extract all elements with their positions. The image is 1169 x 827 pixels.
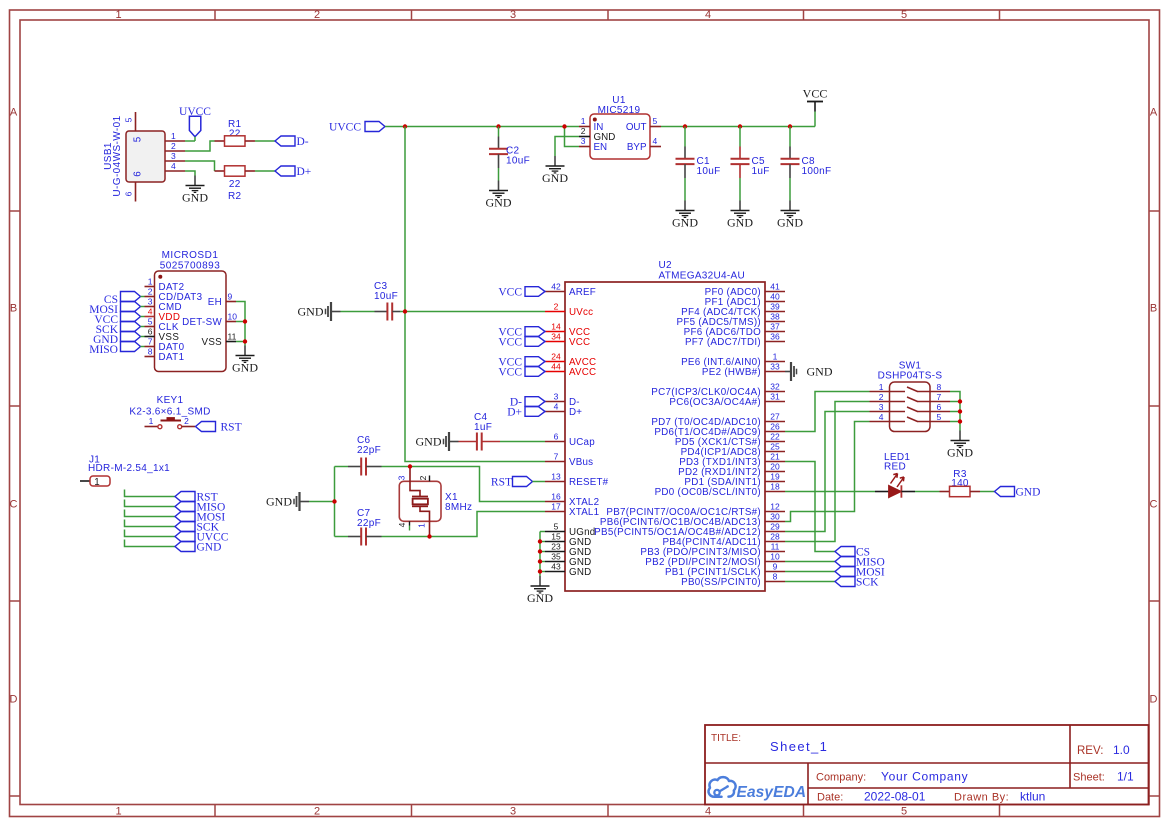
svg-text:8: 8 <box>773 572 778 582</box>
svg-text:GND: GND <box>416 435 442 449</box>
wire USB1 pin4 to ground <box>185 171 195 176</box>
junction UVCC/C3 branch <box>403 124 407 128</box>
port RST at RESET# <box>491 476 545 488</box>
svg-text:100nF: 100nF <box>802 166 832 177</box>
svg-text:1: 1 <box>171 131 176 141</box>
ground at C1 <box>672 201 698 230</box>
port MISO stub <box>125 500 226 514</box>
svg-text:RST: RST <box>491 476 512 488</box>
wire U1 GND pin to ground <box>555 137 579 157</box>
svg-text:GND: GND <box>197 541 222 553</box>
port MOSI <box>835 566 885 578</box>
svg-text:7: 7 <box>148 337 153 347</box>
svg-text:1: 1 <box>417 523 427 528</box>
svg-text:2: 2 <box>581 126 586 136</box>
net flag VCC at AREF <box>498 286 545 298</box>
svg-text:16: 16 <box>551 492 561 502</box>
junction GND pin43 <box>538 569 542 573</box>
regulator U1 MIC5219 <box>579 95 661 159</box>
port GND at MICROSD1 <box>93 332 144 347</box>
svg-text:4: 4 <box>653 136 658 146</box>
svg-text:PE2 (HWB#): PE2 (HWB#) <box>702 367 761 378</box>
svg-text:EN: EN <box>594 142 608 153</box>
wire SW1 pin2 to PB4 <box>785 402 870 542</box>
junction OUT/C8 <box>788 124 792 128</box>
svg-text:GND: GND <box>298 305 324 319</box>
svg-text:3: 3 <box>581 136 586 146</box>
svg-text:GND: GND <box>1016 486 1041 498</box>
LED LED1 RED <box>875 452 915 498</box>
svg-text:4: 4 <box>554 402 559 412</box>
svg-text:HDR-M-2.54_1x1: HDR-M-2.54_1x1 <box>88 463 170 474</box>
svg-text:10: 10 <box>228 312 238 322</box>
port CS at SW1 net <box>835 546 870 558</box>
svg-text:9: 9 <box>228 292 233 302</box>
svg-text:5025700893: 5025700893 <box>160 261 221 272</box>
svg-text:1.0: 1.0 <box>1113 743 1130 757</box>
svg-text:35: 35 <box>551 552 561 562</box>
wire SW1 right side to ground <box>950 392 960 431</box>
svg-text:D-: D- <box>297 136 309 148</box>
svg-text:MICROSD1: MICROSD1 <box>162 250 219 261</box>
capacitor C5 1uF <box>731 127 770 201</box>
svg-text:ATMEGA32U4-AU: ATMEGA32U4-AU <box>659 271 746 282</box>
svg-text:PD0 (OC0B/SCL/INT0): PD0 (OC0B/SCL/INT0) <box>655 487 761 498</box>
svg-text:Sheet_1: Sheet_1 <box>770 739 828 754</box>
port D- <box>275 136 309 148</box>
svg-text:1: 1 <box>115 806 121 818</box>
title block <box>705 725 1149 805</box>
capacitor C6 22pF <box>335 435 411 476</box>
svg-text:1: 1 <box>115 9 121 21</box>
connector USB1 U-G-04WS-W-01 <box>103 112 185 202</box>
svg-text:21: 21 <box>770 452 780 462</box>
svg-text:10uF: 10uF <box>697 166 721 177</box>
svg-text:3: 3 <box>879 402 884 412</box>
svg-text:22: 22 <box>229 179 241 190</box>
svg-text:PB0(SS/PCINT0): PB0(SS/PCINT0) <box>681 577 761 588</box>
wire PD3 to CS port <box>785 462 835 552</box>
svg-text:GND: GND <box>807 365 833 379</box>
svg-text:6: 6 <box>148 327 153 337</box>
svg-text:GND: GND <box>777 216 803 230</box>
ground at SW1 <box>947 431 973 460</box>
wire MICROSD1 EH/DET-SW/VSS to ground <box>236 302 245 346</box>
svg-text:39: 39 <box>770 302 780 312</box>
svg-text:B: B <box>10 303 17 315</box>
port SCK stub <box>125 520 220 534</box>
svg-text:4: 4 <box>397 522 407 527</box>
ground at C8 <box>777 201 803 230</box>
svg-text:5: 5 <box>148 317 153 327</box>
svg-text:42: 42 <box>551 282 561 292</box>
junction SW1 pin7 <box>958 399 962 403</box>
svg-text:1/1: 1/1 <box>1117 770 1134 784</box>
svg-text:TITLE:: TITLE: <box>711 733 741 744</box>
svg-text:13: 13 <box>551 472 561 482</box>
svg-text:20: 20 <box>770 462 780 472</box>
ground at C3 <box>298 302 341 321</box>
junction C3/UVcc branch <box>403 309 407 313</box>
wire crystal left rail <box>334 467 336 537</box>
svg-text:5: 5 <box>133 136 144 142</box>
net flag D- at pin3 <box>510 396 545 408</box>
svg-text:Drawn By:: Drawn By: <box>954 792 1009 804</box>
svg-text:MISO: MISO <box>89 344 118 356</box>
svg-text:D+: D+ <box>507 406 522 418</box>
crystal X1 8MHz <box>397 467 473 537</box>
port UVCC stub <box>125 530 229 544</box>
MICROSD1 right pins <box>182 292 237 349</box>
svg-text:3: 3 <box>397 475 407 480</box>
svg-text:SCK: SCK <box>856 576 879 588</box>
svg-text:3: 3 <box>510 806 516 818</box>
wire R1 to port D- <box>255 140 275 142</box>
svg-text:Your Company: Your Company <box>881 770 968 784</box>
svg-text:3: 3 <box>148 297 153 307</box>
svg-text:30: 30 <box>770 512 780 522</box>
svg-text:12: 12 <box>770 502 780 512</box>
svg-text:37: 37 <box>770 322 780 332</box>
svg-text:1: 1 <box>581 116 586 126</box>
svg-text:R2: R2 <box>228 191 242 202</box>
svg-text:24: 24 <box>551 352 561 362</box>
wire PD0 to LED1 <box>785 491 875 493</box>
svg-text:VSS: VSS <box>201 337 222 348</box>
svg-text:RED: RED <box>884 462 906 473</box>
svg-text:2: 2 <box>171 141 176 151</box>
svg-text:D: D <box>1150 694 1158 706</box>
push button KEY1 K2-3.6x6.1_SMD <box>129 395 210 429</box>
svg-text:6: 6 <box>124 191 134 196</box>
svg-text:GND: GND <box>947 446 973 460</box>
svg-text:4: 4 <box>148 307 153 317</box>
junction SW1 pin6 <box>958 409 962 413</box>
port SCK <box>835 576 879 588</box>
wire SW1 pin4 to PB6 <box>785 422 870 522</box>
ground at U2 <box>527 576 553 605</box>
svg-text:C: C <box>10 499 18 511</box>
svg-text:38: 38 <box>770 312 780 322</box>
svg-text:40: 40 <box>770 292 780 302</box>
U2 left pins <box>545 282 609 578</box>
svg-text:Date:: Date: <box>817 792 843 804</box>
svg-text:DET-SW: DET-SW <box>182 317 222 328</box>
net flag VCC at pin14 <box>498 326 545 338</box>
svg-text:VBus: VBus <box>569 457 593 468</box>
svg-text:6: 6 <box>554 432 559 442</box>
U2 right pins <box>594 282 785 588</box>
ground at C2 <box>486 181 512 210</box>
svg-text:Company:: Company: <box>816 772 866 784</box>
svg-text:2022-08-01: 2022-08-01 <box>864 790 926 804</box>
svg-text:XTAL1: XTAL1 <box>569 507 599 518</box>
port GND at R3 <box>995 486 1041 498</box>
svg-text:U-G-04WS-W-01: U-G-04WS-W-01 <box>112 115 123 196</box>
svg-text:1uF: 1uF <box>474 422 492 433</box>
svg-text:23: 23 <box>551 542 561 552</box>
svg-text:VCC: VCC <box>803 87 828 101</box>
svg-text:8: 8 <box>148 347 153 357</box>
svg-text:VCC: VCC <box>498 366 522 378</box>
junction OUT/C1 <box>683 124 687 128</box>
svg-text:5: 5 <box>653 116 658 126</box>
wire EN branch <box>565 127 580 147</box>
ground at USB1 <box>182 176 208 205</box>
svg-text:1uF: 1uF <box>752 166 770 177</box>
svg-text:GND: GND <box>486 196 512 210</box>
svg-text:32: 32 <box>770 382 780 392</box>
svg-text:D+: D+ <box>297 166 312 178</box>
svg-text:A: A <box>10 107 18 119</box>
junction GND pin35 <box>538 559 542 563</box>
wire U2 ground pins <box>540 532 545 577</box>
svg-text:25: 25 <box>770 442 780 452</box>
svg-text:44: 44 <box>551 362 561 372</box>
svg-text:UVCC: UVCC <box>329 121 361 133</box>
svg-text:10uF: 10uF <box>374 291 398 302</box>
wire LED1 to R3 <box>915 491 940 493</box>
svg-text:27: 27 <box>770 412 780 422</box>
svg-text:15: 15 <box>551 532 561 542</box>
svg-text:11: 11 <box>228 332 237 342</box>
wire U1 OUT to VCC <box>661 126 815 128</box>
wire PB0 to SCK port <box>785 581 835 583</box>
svg-text:2: 2 <box>314 9 320 21</box>
svg-text:26: 26 <box>770 422 780 432</box>
svg-text:3: 3 <box>171 151 176 161</box>
svg-text:AREF: AREF <box>569 287 596 298</box>
svg-text:4: 4 <box>879 412 884 422</box>
svg-text:GND: GND <box>527 591 553 605</box>
svg-text:1: 1 <box>148 277 153 287</box>
wire SW1 pin3 to PB5 <box>785 412 870 532</box>
svg-text:BYP: BYP <box>627 142 647 153</box>
svg-text:U2: U2 <box>659 260 673 271</box>
junction VSS <box>243 339 247 343</box>
junction UVCC/C2 <box>496 124 500 128</box>
svg-text:5: 5 <box>901 806 907 818</box>
svg-text:RST: RST <box>221 421 242 433</box>
svg-text:8MHz: 8MHz <box>445 502 472 513</box>
svg-text:22pF: 22pF <box>357 445 381 456</box>
svg-text:Sheet:: Sheet: <box>1073 772 1105 784</box>
svg-text:29: 29 <box>770 522 780 532</box>
svg-text:4: 4 <box>705 9 711 21</box>
svg-text:ktlun: ktlun <box>1020 790 1045 804</box>
capacitor C2 10uF <box>489 127 530 181</box>
ground at PE2 <box>785 362 833 381</box>
svg-text:10uF: 10uF <box>506 156 530 167</box>
net flag D+ at pin4 <box>507 406 545 418</box>
junction X1 top <box>408 464 412 468</box>
svg-text:3: 3 <box>510 9 516 21</box>
svg-text:UCap: UCap <box>569 437 595 448</box>
svg-text:GND: GND <box>569 567 591 578</box>
svg-text:GND: GND <box>182 191 208 205</box>
svg-text:PF7 (ADC7/TDI): PF7 (ADC7/TDI) <box>685 337 761 348</box>
svg-text:2: 2 <box>418 475 428 480</box>
svg-text:5: 5 <box>901 9 907 21</box>
wire XTAL2 net <box>410 467 545 502</box>
capacitor C4 1uF <box>459 412 546 451</box>
capacitor C3 10uF <box>341 281 406 321</box>
svg-text:VCC: VCC <box>498 336 522 348</box>
svg-text:7: 7 <box>554 452 559 462</box>
ground at crystal rail <box>266 492 335 511</box>
svg-text:GND: GND <box>266 495 292 509</box>
svg-text:A: A <box>1150 107 1158 119</box>
connector MICROSD1 5025700893 <box>155 250 227 372</box>
svg-text:4: 4 <box>171 161 176 171</box>
svg-text:C: C <box>1150 499 1158 511</box>
svg-text:2: 2 <box>314 806 320 818</box>
wire UVCC vertical to VBus <box>405 127 545 462</box>
net flag VCC at pin24 <box>498 356 545 368</box>
svg-text:VCC: VCC <box>569 337 590 348</box>
svg-text:3: 3 <box>554 392 559 402</box>
svg-text:19: 19 <box>770 472 780 482</box>
svg-text:2: 2 <box>554 302 559 312</box>
svg-text:34: 34 <box>551 332 561 342</box>
port SCK at MICROSD1 <box>96 322 145 337</box>
port MISO at MICROSD1 <box>89 342 144 357</box>
port CS at MICROSD1 <box>104 292 145 307</box>
svg-text:B: B <box>1150 303 1157 315</box>
svg-text:31: 31 <box>770 392 780 402</box>
port MOSI stub <box>125 510 226 524</box>
svg-text:KEY1: KEY1 <box>157 395 184 406</box>
svg-text:28: 28 <box>770 532 780 542</box>
svg-text:2: 2 <box>879 392 884 402</box>
svg-text:22pF: 22pF <box>357 518 381 529</box>
resistor R1 22 <box>215 119 256 146</box>
dip switch SW1 DSHP04TS-S <box>870 361 951 432</box>
svg-text:DSHP04TS-S: DSHP04TS-S <box>878 371 943 382</box>
net flag UVCC at USB1 pin1 <box>179 106 211 141</box>
port GND stub <box>125 540 222 554</box>
wire C3 to UVcc pin <box>405 311 545 313</box>
svg-text:GND: GND <box>232 361 258 375</box>
wire R2 to port D+ <box>255 170 275 172</box>
svg-text:PC6(OC3A/OC4A#): PC6(OC3A/OC4A#) <box>669 397 761 408</box>
junction DET-SW <box>243 319 247 323</box>
svg-text:EH: EH <box>208 297 222 308</box>
svg-text:GND: GND <box>542 171 568 185</box>
port RST at KEY1 <box>196 421 242 433</box>
svg-text:VCC: VCC <box>498 286 522 298</box>
wire PB2 to MISO port <box>785 561 835 563</box>
port MOSI at MICROSD1 <box>89 302 144 317</box>
svg-text:6: 6 <box>133 171 144 177</box>
capacitor C7 22pF <box>335 508 430 546</box>
port D+ <box>275 166 311 178</box>
junction SW1 pin5 <box>958 419 962 423</box>
svg-text:1: 1 <box>149 416 154 426</box>
svg-text:D+: D+ <box>569 407 582 418</box>
svg-text:1: 1 <box>879 382 884 392</box>
capacitor C8 100nF <box>781 127 832 201</box>
svg-text:36: 36 <box>770 332 780 342</box>
svg-text:D: D <box>10 694 18 706</box>
EasyEDA logo <box>709 777 807 801</box>
svg-text:4: 4 <box>705 806 711 818</box>
svg-text:1: 1 <box>773 352 778 362</box>
capacitor C1 10uF <box>676 127 721 201</box>
svg-text:EasyEDA: EasyEDA <box>737 784 807 801</box>
port VCC at MICROSD1 <box>94 312 144 327</box>
svg-text:10: 10 <box>770 552 780 562</box>
svg-text:18: 18 <box>770 482 780 492</box>
junction crystal rail <box>332 499 336 503</box>
wire R3 to GND port <box>980 491 995 493</box>
port RST stub <box>125 490 218 504</box>
wire SW1 pin1 to PD6 <box>785 392 870 432</box>
junction OUT/C5 <box>738 124 742 128</box>
header J1 HDR-M-2.54_1x1 <box>80 455 170 488</box>
MCU U2 ATMEGA32U4-AU <box>565 260 765 591</box>
svg-text:AVCC: AVCC <box>569 367 596 378</box>
port MISO <box>835 556 885 568</box>
svg-text:43: 43 <box>551 562 561 572</box>
svg-text:41: 41 <box>770 282 780 292</box>
svg-text:2: 2 <box>184 416 189 426</box>
svg-text:GND: GND <box>672 216 698 230</box>
junction GND pin15 <box>538 539 542 543</box>
svg-text:DAT1: DAT1 <box>159 352 185 363</box>
svg-text:7: 7 <box>937 392 942 402</box>
svg-text:5: 5 <box>937 412 942 422</box>
wire UVCC rail to U1 IN <box>385 126 579 128</box>
wire USB1 pin3 to R2 <box>185 161 215 171</box>
wire USB1 pin2 to R1 <box>185 141 215 151</box>
svg-text:GND: GND <box>727 216 753 230</box>
svg-text:2: 2 <box>148 287 153 297</box>
svg-text:6: 6 <box>937 402 942 412</box>
svg-text:9: 9 <box>773 562 778 572</box>
port UVCC input rail <box>329 121 385 133</box>
junction X1 bottom <box>427 534 431 538</box>
svg-text:OUT: OUT <box>626 122 647 133</box>
svg-text:REV:: REV: <box>1077 745 1103 757</box>
svg-text:14: 14 <box>551 322 561 332</box>
net flag VCC at pin34 <box>498 336 545 348</box>
svg-text:33: 33 <box>770 362 780 372</box>
wire USB1 pin1 to UVCC <box>185 140 195 142</box>
svg-text:RESET#: RESET# <box>569 477 609 488</box>
svg-text:5: 5 <box>554 522 559 532</box>
ground at U1 <box>542 156 568 185</box>
svg-text:11: 11 <box>771 542 780 552</box>
junction GND pin23 <box>538 549 542 553</box>
svg-text:UVcc: UVcc <box>569 307 593 318</box>
svg-text:22: 22 <box>770 432 780 442</box>
svg-text:1: 1 <box>94 477 99 488</box>
wire PB1 to MOSI port <box>785 571 835 573</box>
resistor R2 22 <box>215 166 256 202</box>
svg-text:K2-3.6×6.1_SMD: K2-3.6×6.1_SMD <box>129 407 210 418</box>
resistor R3 140 <box>940 469 981 497</box>
power flag VCC <box>803 87 828 127</box>
ground at C5 <box>727 201 753 230</box>
wire XTAL1 net <box>430 512 546 537</box>
svg-text:5: 5 <box>124 117 134 122</box>
svg-text:8: 8 <box>937 382 942 392</box>
junction UVCC/EN <box>562 124 566 128</box>
svg-text:17: 17 <box>551 502 561 512</box>
ground at C4 <box>416 432 459 451</box>
MICROSD1 left pins <box>145 277 203 363</box>
